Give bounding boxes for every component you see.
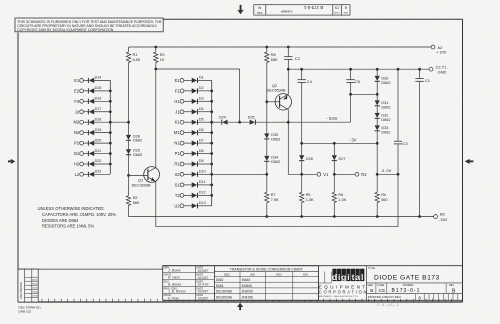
- input E1 terminal: [74, 78, 83, 83]
- node R4 top junction: [376, 173, 379, 176]
- wire R1 bottom to D28: [128, 63, 130, 135]
- node left bus J2: [109, 110, 112, 113]
- diode D2: [184, 86, 212, 93]
- input H2 terminal: [74, 162, 84, 167]
- diode D24: [219, 116, 228, 125]
- diode D22: [83, 159, 110, 166]
- node chain tap junction: [376, 93, 379, 96]
- diode D31 D662: [375, 100, 391, 113]
- wire to terminal R2: [334, 173, 355, 175]
- node left bus E2: [109, 89, 112, 92]
- node D26 on output row: [300, 173, 303, 176]
- dec form number text: [19, 306, 42, 314]
- notes unless otherwise indicated: [38, 206, 117, 229]
- node C4 top on GND rail: [300, 68, 303, 71]
- input S2 terminal (gate 1): [175, 172, 184, 177]
- diode D34 D662: [264, 156, 280, 164]
- node middle bus D5: [210, 121, 213, 124]
- capacitor C5: [346, 69, 360, 94]
- wire GND rail: [288, 68, 429, 70]
- resistor R1 6.8K: [126, 52, 140, 63]
- resistor R5 1.5K: [300, 174, 315, 216]
- registration arrow bottom: [237, 303, 243, 311]
- wire -15V rail: [129, 216, 434, 218]
- wire D24 to junction: [228, 121, 250, 123]
- terminal C2,T1 GND: [429, 65, 447, 75]
- sheet frame bottom border: [18, 301, 463, 303]
- wire gate bus row K1 to D24: [212, 121, 222, 123]
- resistor R2b 68K bias: [126, 196, 140, 206]
- input E2 terminal: [74, 88, 83, 93]
- node D27/R6 output junction: [333, 173, 336, 176]
- node left bus N2: [109, 131, 112, 134]
- node C4 bottom on -3V wire: [300, 142, 303, 145]
- node middle bus D10: [210, 173, 213, 176]
- node D24/D25 junction: [238, 121, 241, 124]
- wire gate-1 bus output row segment: [212, 173, 267, 175]
- sheet frame top border: [118, 18, 463, 20]
- node R5 on -15V rail: [300, 215, 303, 218]
- wire Q2 emitter to GND rail: [287, 69, 289, 94]
- node middle bus D11: [210, 184, 213, 187]
- resistor R7 7.5K: [265, 192, 279, 202]
- input J1 terminal (gate 1): [175, 109, 184, 114]
- wire +10V rail: [129, 46, 432, 48]
- diode D5: [184, 117, 212, 124]
- capacitor C1: [415, 69, 430, 216]
- node D33 bottom on -3V wire: [376, 142, 379, 145]
- node middle bus D8: [210, 152, 213, 155]
- wire collector node to D24/D25 junction: [156, 69, 240, 122]
- wire D34 to output row: [266, 161, 268, 192]
- node Q1 base junction: [127, 174, 130, 177]
- resistor R8 68K: [265, 52, 278, 63]
- node M2-row tap junction: [127, 121, 130, 124]
- input P1 terminal (gate 1): [175, 151, 184, 156]
- input T2 terminal (gate 1): [175, 193, 184, 198]
- input F1 terminal (gate 1): [175, 88, 184, 93]
- input M2 terminal: [74, 120, 84, 125]
- input B1 terminal: [74, 151, 83, 156]
- diode D9: [184, 159, 212, 166]
- capacitor C3: [394, 69, 409, 174]
- node middle bus D6: [210, 131, 213, 134]
- wire R8 top: [266, 47, 268, 52]
- node middle bus D12: [210, 194, 213, 197]
- node C3 bottom junction: [397, 173, 400, 176]
- diode D28 D662: [126, 134, 142, 142]
- node middle bus D2: [210, 89, 213, 92]
- input K1 terminal (gate 1): [175, 120, 184, 125]
- wire chain to R4: [376, 143, 378, 192]
- diode D19: [83, 128, 110, 135]
- wire D29 to Q1 base node: [128, 154, 130, 195]
- node left bus H2: [109, 163, 112, 166]
- input U2 terminal (gate 1): [174, 203, 184, 208]
- input E1 terminal (gate 1): [175, 78, 184, 83]
- bottom strip top line: [18, 268, 163, 270]
- wire -3V net: [302, 142, 378, 144]
- diode D30 D662: [375, 69, 391, 100]
- diode D17: [83, 107, 110, 114]
- terminal V1 output: [317, 172, 329, 177]
- node left bus P2: [109, 142, 112, 145]
- node left bus B1: [109, 152, 112, 155]
- node middle bus D7: [210, 142, 213, 145]
- revisions block: [18, 269, 39, 302]
- notice box: [15, 18, 163, 32]
- diode D33 D662: [375, 125, 391, 143]
- sheet frame left border: [17, 33, 19, 302]
- wire R2 top: [155, 47, 157, 52]
- top title strip box: [254, 5, 350, 15]
- diode D26: [299, 143, 313, 174]
- node Q2 emitter / C2 on GND rail: [287, 68, 290, 71]
- input F2 terminal: [74, 99, 83, 104]
- node middle bus D9: [210, 163, 213, 166]
- wire D35 to D34: [266, 139, 268, 156]
- diode D14: [83, 76, 110, 83]
- middle gate cathode bus: [211, 80, 213, 205]
- node D27 top on -3V wire: [333, 142, 336, 145]
- diode D25: [248, 116, 256, 125]
- node left bus F2: [109, 100, 112, 103]
- diode D6: [184, 128, 212, 135]
- capacitor C4: [298, 69, 313, 143]
- diode D13: [184, 201, 212, 208]
- wire -3.0V segment: [377, 173, 398, 175]
- title block: [163, 266, 463, 301]
- node R4 on -15V rail: [376, 215, 379, 218]
- top strip drawing number text (rotated): [257, 5, 348, 14]
- node C2 top on +10V rail: [287, 46, 290, 49]
- registration arrow top: [237, 5, 243, 14]
- node R2 bottom junction: [154, 68, 157, 71]
- node R2 top on +10V rail: [154, 46, 157, 49]
- input J2 terminal: [75, 109, 84, 114]
- left gate cathode bus: [109, 80, 111, 174]
- node left bus M2: [109, 121, 112, 124]
- wire R1 top to +10V rail: [128, 47, 130, 52]
- node R8 top on +10V rail: [265, 46, 268, 49]
- diode D4: [184, 107, 212, 114]
- input N1 terminal (gate 1): [174, 141, 184, 146]
- node C5 top on GND rail: [349, 68, 352, 71]
- terminal A2 +10V: [431, 45, 447, 55]
- wire R7 bottom to -15V rail: [266, 203, 268, 217]
- resistor R4 560: [375, 192, 388, 216]
- diode D3: [184, 97, 212, 104]
- node C3 top on GND rail: [397, 68, 400, 71]
- transistor diode conversion chart: [214, 266, 318, 301]
- wire M2 row tap to R1 column: [110, 121, 128, 123]
- node C1 top on GND rail: [418, 68, 421, 71]
- transistor Q1 DEC3009B: [129, 167, 160, 188]
- bottom perforation ticks: [42, 299, 452, 302]
- input L2 terminal: [75, 172, 84, 177]
- node C5 bottom junction: [349, 93, 352, 96]
- node R6 on -15V rail: [333, 215, 336, 218]
- node middle bus D4: [210, 110, 213, 113]
- diode D1: [184, 76, 212, 83]
- diode D10: [184, 170, 212, 177]
- wire R2 bottom to Q1 collector: [155, 63, 157, 169]
- resistor R2 1K: [154, 52, 165, 63]
- diode D7: [184, 138, 212, 145]
- wire 68K bias resistor bottom to -15V rail corner: [128, 206, 130, 217]
- input S1 terminal (gate 1): [175, 182, 184, 187]
- terminal R2 output: [355, 172, 367, 177]
- wire D28 to D29: [128, 140, 130, 149]
- wire C5 tap to diode chain: [351, 93, 378, 95]
- transistor Q2 DEC6534B: [267, 84, 292, 110]
- input P2 terminal: [74, 141, 83, 146]
- diode D8: [184, 149, 212, 156]
- terminal B2 -15V: [434, 212, 448, 222]
- diode D15: [83, 86, 110, 93]
- node middle bus D3: [210, 100, 213, 103]
- diode D20: [83, 138, 110, 145]
- wire R8 bottom to Q2 base node: [266, 63, 268, 134]
- diode D21: [83, 149, 110, 156]
- node Q2 base junction: [265, 100, 268, 103]
- wire -0.6V net: [255, 94, 350, 122]
- diode D32 D662: [375, 113, 391, 126]
- signature block: [163, 266, 215, 301]
- node D34/R7 junction: [265, 173, 268, 176]
- wire Q2 collector to output V1: [288, 110, 317, 175]
- input M1 terminal (gate 1): [174, 130, 184, 135]
- diode D27: [332, 143, 346, 174]
- node Q2 collector on -0.6V wire: [287, 121, 290, 124]
- diode D12: [184, 191, 212, 198]
- diode D23: [83, 170, 110, 177]
- capacitor C2: [284, 47, 301, 69]
- registration arrow left: [8, 159, 15, 164]
- diode D18: [83, 117, 110, 124]
- digital logo block: [318, 266, 368, 301]
- input N2 terminal: [74, 130, 84, 135]
- node D30 top on GND rail: [376, 68, 379, 71]
- node R7 on -15V rail: [265, 215, 268, 218]
- sheet frame right border: [462, 19, 464, 302]
- diode D29 D663: [126, 149, 142, 157]
- diode D11: [184, 180, 212, 187]
- diode D16: [83, 97, 110, 104]
- input H1 terminal (gate 1): [174, 99, 184, 104]
- registration arrow right: [465, 159, 474, 164]
- input R1 terminal (gate 1): [174, 162, 184, 167]
- resistor R6 1.5K: [332, 174, 347, 216]
- diode D35 D663: [264, 133, 280, 141]
- wire Q1 emitter return: [156, 174, 398, 226]
- node C1 bottom on -15V rail: [418, 215, 421, 218]
